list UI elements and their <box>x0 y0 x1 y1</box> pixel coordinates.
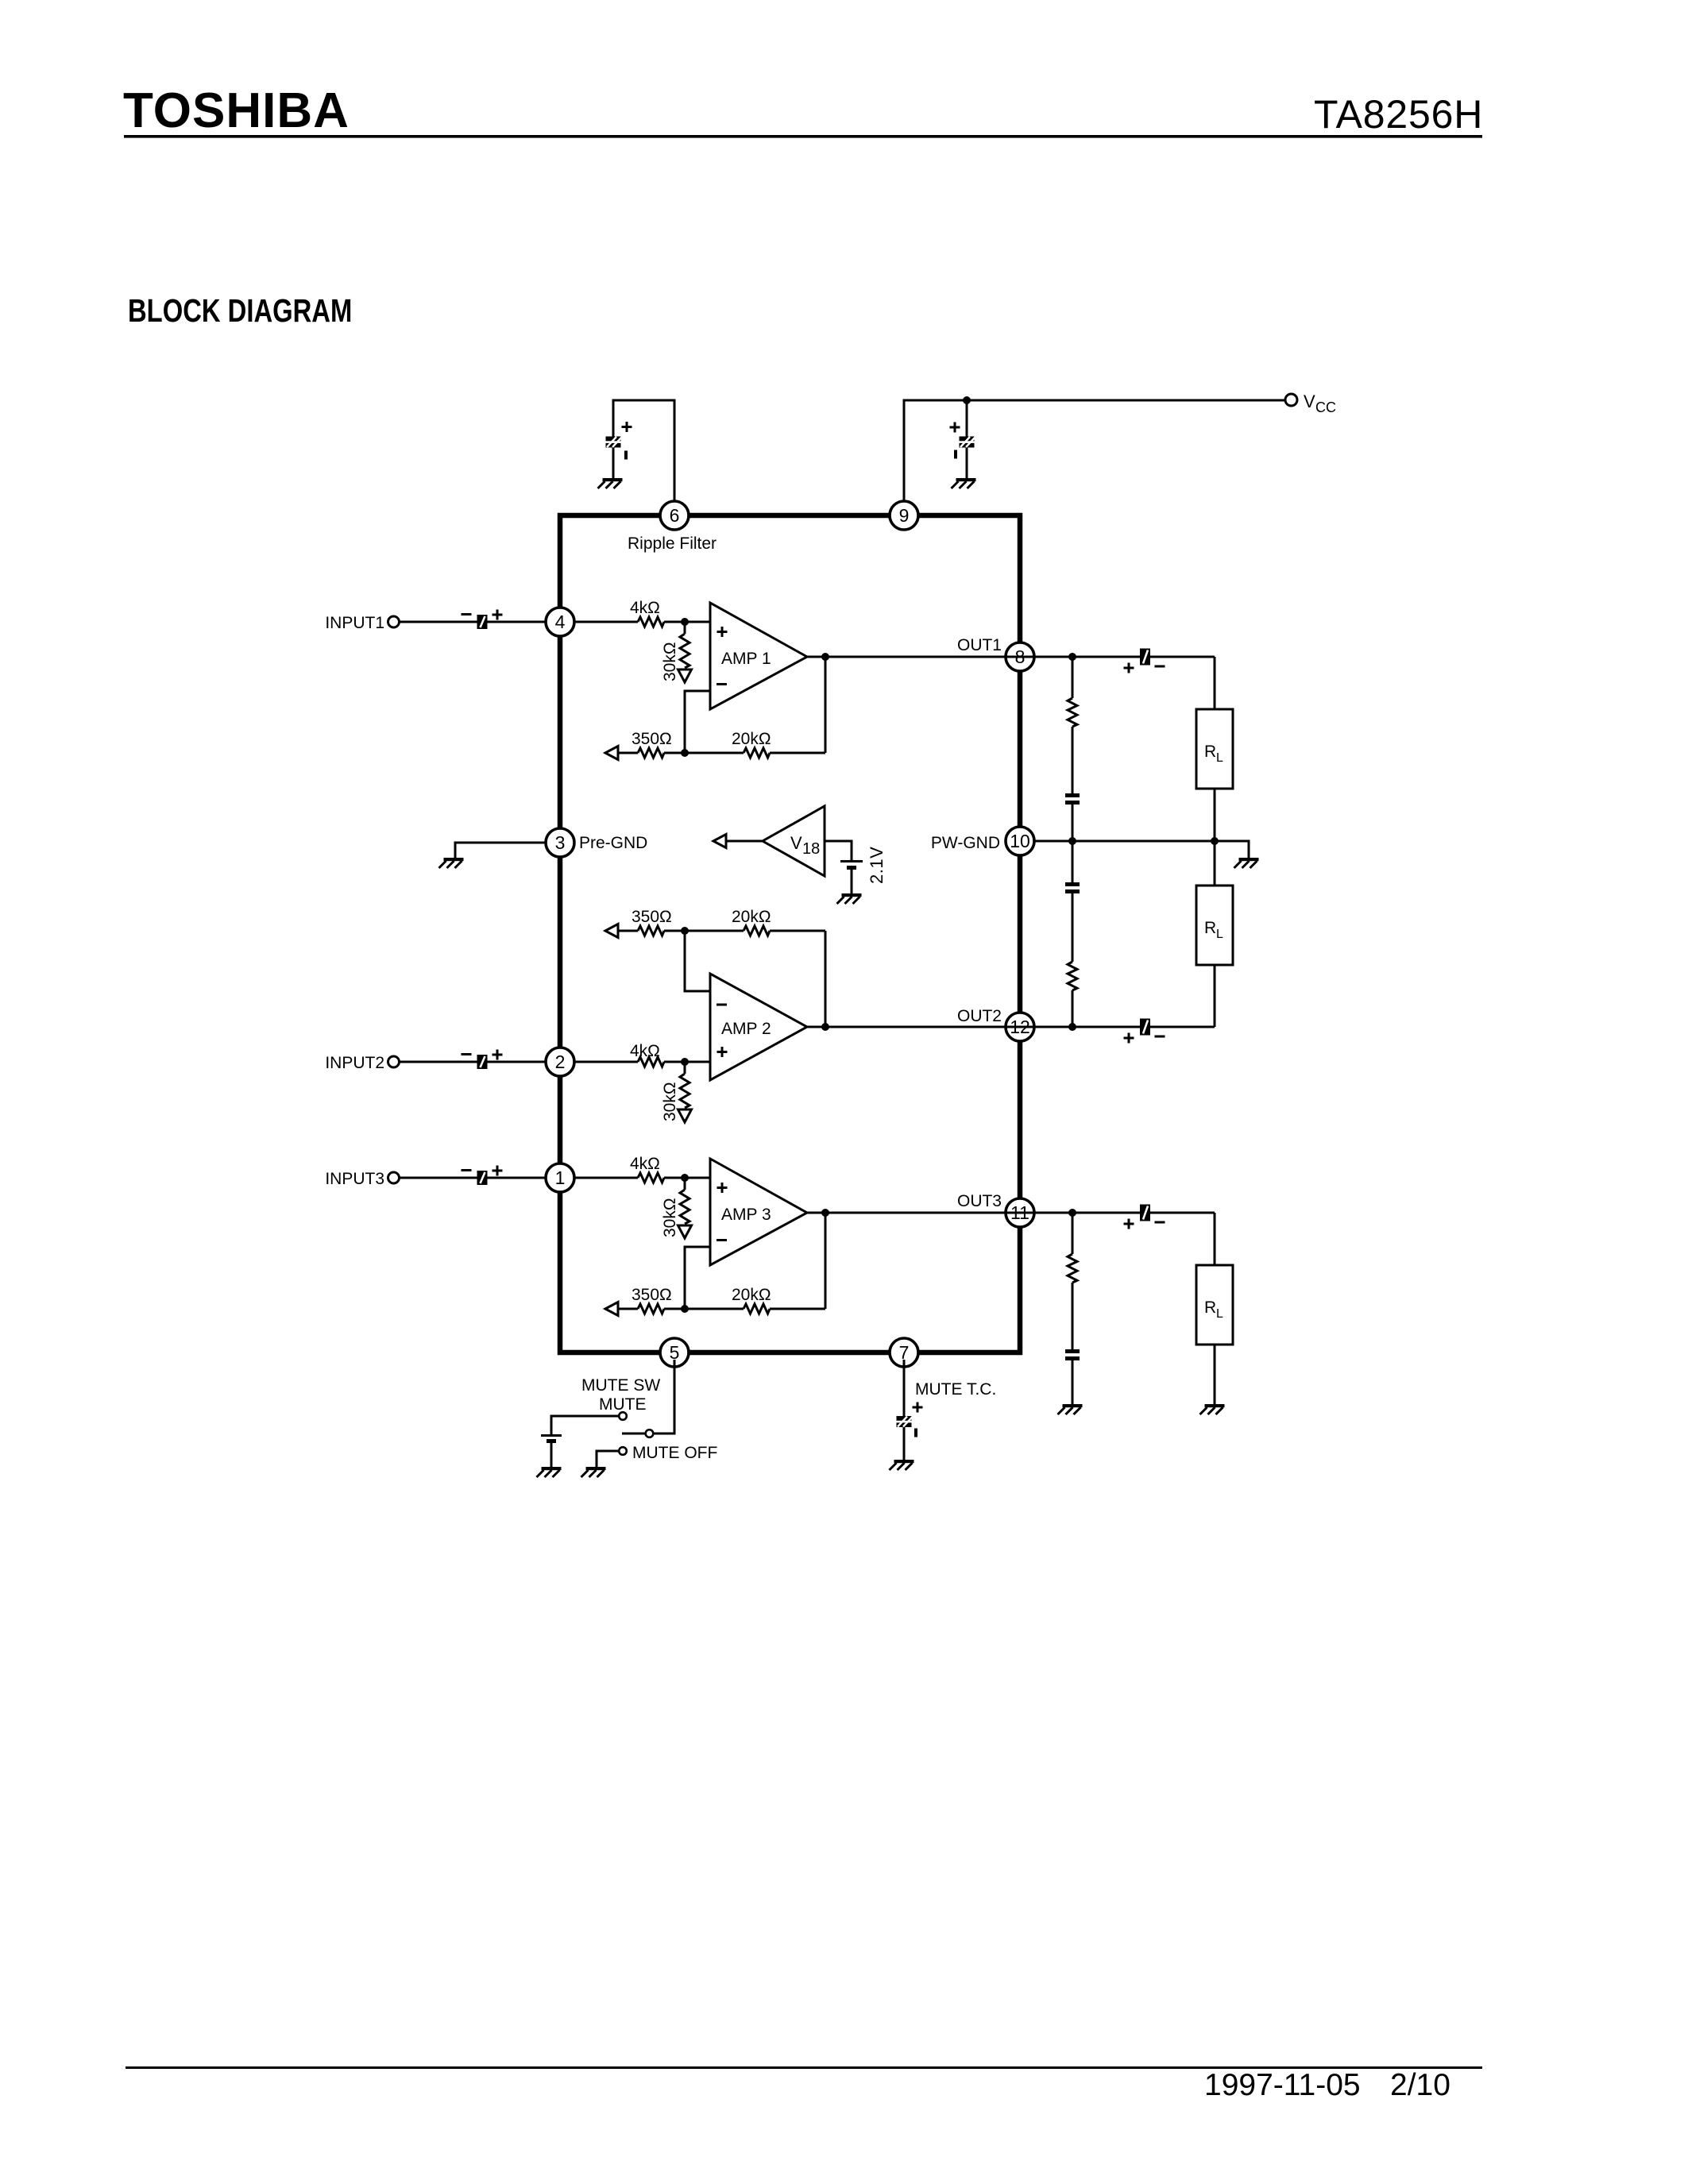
pin 8 <box>1006 642 1034 671</box>
op-amp AMP 1 <box>710 603 807 709</box>
minus mark C-VCC <box>954 450 957 459</box>
svg-text:Ripple Filter: Ripple Filter <box>628 534 717 553</box>
resistor 30kΩ (AMP 3) <box>680 1190 689 1224</box>
svg-text:AMP 1: AMP 1 <box>721 650 771 668</box>
svg-text:1: 1 <box>555 1167 566 1188</box>
svg-text:MUTE SW: MUTE SW <box>581 1376 660 1395</box>
capacitor mute switch <box>541 1434 562 1443</box>
wire AMP 2 output to pin <box>807 1026 1034 1028</box>
junction OUT3 node <box>1068 1209 1076 1217</box>
junction AMP 3 input node <box>681 1174 689 1182</box>
svg-text:3: 3 <box>555 832 566 853</box>
svg-text:CC: CC <box>1315 399 1336 415</box>
contact MUTE <box>619 1412 627 1420</box>
resistor 4kΩ (AMP 1 input) <box>638 617 664 627</box>
ground ripple filter cap <box>598 478 623 488</box>
terminal INPUT2 <box>388 1056 400 1067</box>
wire 350Ω to 20kΩ (AMP 2) <box>664 930 744 932</box>
svg-text:INPUT1: INPUT1 <box>325 614 384 632</box>
resistor 4kΩ (AMP 3 input) <box>638 1173 664 1183</box>
arrow V18 output <box>713 835 726 848</box>
wire INPUT1 to pin <box>400 621 547 623</box>
minus mark input cap 3 <box>462 1169 472 1171</box>
wire pin 6 to ripple filter capacitor <box>613 400 674 508</box>
ground zobel 3 <box>1058 1404 1083 1414</box>
svg-text:AMP 2: AMP 2 <box>721 1020 771 1038</box>
svg-text:MUTE T.C.: MUTE T.C. <box>915 1380 996 1399</box>
junction AMP 3 output <box>821 1209 829 1217</box>
pin 12 <box>1006 1013 1034 1041</box>
svg-text:L: L <box>1216 751 1223 765</box>
junction feedback node AMP 2 <box>681 927 689 935</box>
wire PW-GND rail <box>1034 841 1249 859</box>
resistor 30kΩ (AMP 2) <box>680 1074 689 1108</box>
svg-text:R: R <box>1204 1298 1216 1317</box>
label 2.1V <box>867 847 886 884</box>
wire pin 7 to mute t.c. cap <box>903 1360 906 1417</box>
minus mark C-ripple <box>624 451 628 460</box>
header rule <box>124 135 1482 138</box>
resistor RL load 2 <box>1196 886 1233 965</box>
svg-text:350Ω: 350Ω <box>632 1286 672 1304</box>
resistor 20kΩ (AMP 1) <box>744 748 770 758</box>
minus mark output cap 1 <box>1155 666 1165 668</box>
resistor RL load 1 <box>1196 709 1233 789</box>
svg-text:4kΩ: 4kΩ <box>630 599 660 617</box>
wire AMP 1 output to pin <box>807 656 1034 658</box>
capacitor MUTE T.C. <box>897 1416 914 1427</box>
junction AMP 2 output <box>821 1023 829 1031</box>
svg-text:4: 4 <box>555 612 566 632</box>
wire 4k resistor to AMP 1 + input <box>664 621 710 623</box>
svg-text:OUT3: OUT3 <box>957 1192 1002 1210</box>
junction AMP 2 input node <box>681 1058 689 1066</box>
arrow feedback return (AMP 1) <box>605 747 618 760</box>
wire RL2 to OUT2 line <box>1214 965 1216 1027</box>
mute switch lever <box>622 1433 645 1435</box>
wire VCC bypass cap <box>966 400 968 438</box>
wire mute cap to ground <box>550 1443 553 1468</box>
svg-text:MUTE OFF: MUTE OFF <box>632 1444 717 1462</box>
svg-text:20kΩ: 20kΩ <box>732 730 771 748</box>
svg-text:OUT1: OUT1 <box>957 636 1002 654</box>
svg-text:350Ω: 350Ω <box>632 908 672 926</box>
svg-text:TOSHIBA: TOSHIBA <box>123 83 350 138</box>
wire 4k resistor to AMP 2 + input <box>664 1061 710 1063</box>
plus mark input cap 3 <box>492 1166 503 1176</box>
wire MUTE contact to cap <box>551 1416 619 1435</box>
wire VCC bypass cap to ground <box>966 446 968 479</box>
arrow internal return 30k (AMP 1) <box>678 669 692 682</box>
capacitor input coupling 2 <box>477 1055 488 1069</box>
svg-text:Pre-GND: Pre-GND <box>579 834 647 852</box>
minus mark output cap 3 <box>1155 1221 1165 1224</box>
wire 350Ω to 20kΩ (AMP 3) <box>664 1308 744 1310</box>
wire to 30k resistor (AMP 1) <box>684 622 686 634</box>
plus mark input cap 1 <box>492 610 503 620</box>
ground 2.1V cap <box>837 893 862 904</box>
plus mark output cap 1 <box>1124 663 1134 673</box>
ground mute t.c. cap <box>890 1460 914 1470</box>
minus mark input cap 1 <box>462 613 472 615</box>
wire AMP 3 output to pin <box>807 1212 1034 1214</box>
pin 6 <box>660 501 689 530</box>
wire OUT2 to coupling cap and load <box>1034 1026 1215 1028</box>
capacitor output coupling 3 <box>1140 1205 1150 1221</box>
pin 4 <box>546 608 574 636</box>
svg-text:TA8256H: TA8256H <box>1314 92 1483 137</box>
svg-text:R: R <box>1204 743 1216 761</box>
junction zobel 1 at PW-GND <box>1068 837 1076 845</box>
mute switch pole <box>646 1430 654 1437</box>
terminal INPUT3 <box>388 1172 400 1183</box>
wire zobel 3 <box>1072 1213 1074 1254</box>
pin 7 <box>890 1338 918 1367</box>
wire RL3 to ground <box>1214 1345 1216 1404</box>
buffer amplifier V18 <box>763 806 825 876</box>
wire arrow to V18 buffer <box>726 840 763 843</box>
plus mark C-ripple <box>622 422 632 432</box>
wire pin to 4k resistor (AMP 1) <box>574 621 638 623</box>
capacitor output coupling 1 <box>1140 649 1150 666</box>
junction OUT2 node <box>1068 1023 1076 1031</box>
wire to 30k resistor (AMP 2) <box>684 1062 686 1074</box>
plus mark input cap 2 <box>492 1050 503 1060</box>
pin 9 <box>890 501 918 530</box>
resistor 4kΩ (AMP 2 input) <box>638 1057 664 1067</box>
wire pin 9 to VCC rail <box>904 400 1284 508</box>
junction feedback node AMP 1 <box>681 749 689 757</box>
wire pin to 4k resistor (AMP 2) <box>574 1061 638 1063</box>
resistor 350Ω (AMP 3) <box>638 1304 664 1314</box>
svg-text:2/10: 2/10 <box>1390 2068 1450 2102</box>
svg-text:30kΩ: 30kΩ <box>661 1198 679 1237</box>
contact MUTE OFF <box>619 1447 627 1455</box>
wire coupling cap 3 to RL3 <box>1214 1213 1216 1265</box>
wire feedback to output (AMP 1) <box>825 657 827 753</box>
wire to 30k resistor (AMP 3) <box>684 1178 686 1190</box>
wire coupling cap 1 to RL1 <box>1214 657 1216 709</box>
resistor zobel 2 <box>1068 962 1077 990</box>
junction OUT1 node <box>1068 653 1076 661</box>
junction AMP 1 input node <box>681 618 689 626</box>
wire zobel 2 <box>1072 841 1074 883</box>
svg-text:30kΩ: 30kΩ <box>661 1082 679 1121</box>
wire 350Ω to 20kΩ (AMP 1) <box>664 752 744 754</box>
resistor RL load 3 <box>1196 1265 1233 1345</box>
plus mark mute t.c. cap <box>913 1403 923 1413</box>
junction RL node at PW-GND <box>1211 837 1219 845</box>
wire OUT1 to coupling cap and load <box>1034 656 1215 658</box>
capacitor C-VCC bypass <box>960 437 976 448</box>
junction AMP 1 output <box>821 653 829 661</box>
wire ripple filter cap to ground <box>612 446 615 479</box>
arrow internal return 30k (AMP 3) <box>678 1225 692 1238</box>
wire AMP 2 - input to feedback node <box>685 931 710 991</box>
capacitor output coupling 2 <box>1140 1019 1150 1036</box>
wire V18 to 2.1V cap <box>825 841 852 861</box>
wire INPUT2 to pin <box>400 1061 547 1063</box>
wire feedback to output (AMP 3) <box>825 1213 827 1309</box>
footer rule <box>126 2066 1482 2069</box>
svg-text:18: 18 <box>802 840 820 858</box>
resistor 350Ω (AMP 1) <box>638 748 664 758</box>
minus mark input cap 2 <box>462 1053 472 1055</box>
arrow feedback return (AMP 2) <box>605 924 618 938</box>
svg-text:V: V <box>790 833 802 853</box>
wire 4k resistor to AMP 3 + input <box>664 1177 710 1179</box>
svg-text:4kΩ: 4kΩ <box>630 1155 660 1173</box>
svg-text:4kΩ: 4kΩ <box>630 1042 660 1060</box>
label 30kΩ (AMP 2) <box>661 1082 679 1121</box>
op-amp AMP 3 <box>710 1159 807 1265</box>
pin 2 <box>546 1048 574 1076</box>
svg-text:2.1V: 2.1V <box>867 847 886 884</box>
svg-text:20kΩ: 20kΩ <box>732 1286 771 1304</box>
ground MUTE OFF <box>581 1467 606 1477</box>
svg-text:V: V <box>1304 392 1315 411</box>
junction feedback node AMP 3 <box>681 1305 689 1313</box>
wire pin to 4k resistor (AMP 3) <box>574 1177 638 1179</box>
capacitor zobel 3 <box>1065 1349 1080 1360</box>
capacitor 2.1V reference <box>840 860 863 870</box>
op-amp AMP 2 <box>710 974 807 1080</box>
svg-text:9: 9 <box>899 505 910 526</box>
svg-text:1997-11-05: 1997-11-05 <box>1204 2068 1361 2102</box>
wire feedback to output (AMP 2) <box>825 931 827 1027</box>
wire RL1 to PW-GND <box>1214 789 1216 841</box>
svg-text:OUT2: OUT2 <box>957 1007 1002 1025</box>
ground VCC bypass cap <box>952 478 976 488</box>
arrow feedback return (AMP 3) <box>605 1302 618 1316</box>
svg-text:2: 2 <box>555 1051 566 1072</box>
pin 3 <box>546 828 574 857</box>
minus mark mute t.c. cap <box>914 1429 917 1437</box>
minus mark output cap 2 <box>1155 1036 1165 1038</box>
svg-text:6: 6 <box>670 505 680 526</box>
pin 10 <box>1006 827 1034 855</box>
svg-text:R: R <box>1204 919 1216 937</box>
wire MUTE OFF contact to ground <box>597 1451 619 1468</box>
svg-text:MUTE: MUTE <box>599 1395 647 1414</box>
resistor 20kΩ (AMP 2) <box>744 926 770 936</box>
svg-text:PW-GND: PW-GND <box>931 834 1000 852</box>
ground PW-GND <box>1234 858 1259 868</box>
ground RL3 <box>1200 1404 1225 1414</box>
terminal VCC <box>1285 394 1297 406</box>
IC package outline <box>560 515 1020 1352</box>
wire AMP 3 - input to feedback node <box>685 1247 710 1309</box>
svg-text:350Ω: 350Ω <box>632 730 672 748</box>
capacitor input coupling 3 <box>477 1171 488 1185</box>
capacitor C-ripple (pin 6 filter) <box>606 437 623 448</box>
section title BLOCK DIAGRAM <box>128 291 352 328</box>
capacitor zobel 2 <box>1065 882 1080 893</box>
label 30kΩ (AMP 1) <box>661 642 679 681</box>
wire pin 5 to mute switch <box>654 1360 674 1433</box>
label 30kΩ (AMP 3) <box>661 1198 679 1237</box>
ground mute cap <box>537 1467 562 1477</box>
svg-text:AMP 3: AMP 3 <box>721 1206 771 1224</box>
plus mark C-VCC <box>950 423 960 433</box>
wire OUT3 to coupling cap and load <box>1034 1212 1215 1214</box>
pin 5 <box>660 1338 689 1367</box>
capacitor zobel 1 <box>1065 793 1080 805</box>
resistor 350Ω (AMP 2) <box>638 926 664 936</box>
resistor zobel 1 <box>1068 698 1077 727</box>
pin 1 <box>546 1163 574 1192</box>
junction VCC bypass node <box>963 396 971 404</box>
svg-text:10: 10 <box>1010 831 1030 851</box>
svg-text:30kΩ: 30kΩ <box>661 642 679 681</box>
resistor 30kΩ (AMP 1) <box>680 634 689 668</box>
resistor 20kΩ (AMP 3) <box>744 1304 770 1314</box>
plus mark output cap 3 <box>1124 1219 1134 1229</box>
pin 11 <box>1006 1198 1034 1227</box>
svg-text:L: L <box>1216 928 1223 941</box>
wire pin 3 to ground <box>455 843 546 859</box>
wire 2.1V cap to ground <box>851 870 853 894</box>
svg-text:INPUT3: INPUT3 <box>325 1170 384 1188</box>
wire INPUT3 to pin <box>400 1177 547 1179</box>
svg-text:L: L <box>1216 1307 1223 1321</box>
resistor zobel 3 <box>1068 1254 1077 1283</box>
ground Pre-GND <box>439 858 464 868</box>
wire mute t.c. cap to ground <box>903 1426 906 1460</box>
svg-text:INPUT2: INPUT2 <box>325 1054 384 1072</box>
plus mark output cap 2 <box>1124 1033 1134 1044</box>
wire PW-GND to RL2 <box>1214 841 1216 886</box>
svg-text:20kΩ: 20kΩ <box>732 908 771 926</box>
capacitor input coupling 1 <box>477 615 488 629</box>
wire AMP 1 - input to feedback node <box>685 691 710 753</box>
svg-text:BLOCK DIAGRAM: BLOCK DIAGRAM <box>128 291 352 328</box>
wire OUT1 zobel <box>1072 657 1074 698</box>
terminal INPUT1 <box>388 616 400 627</box>
arrow internal return 30k (AMP 2) <box>678 1109 692 1122</box>
